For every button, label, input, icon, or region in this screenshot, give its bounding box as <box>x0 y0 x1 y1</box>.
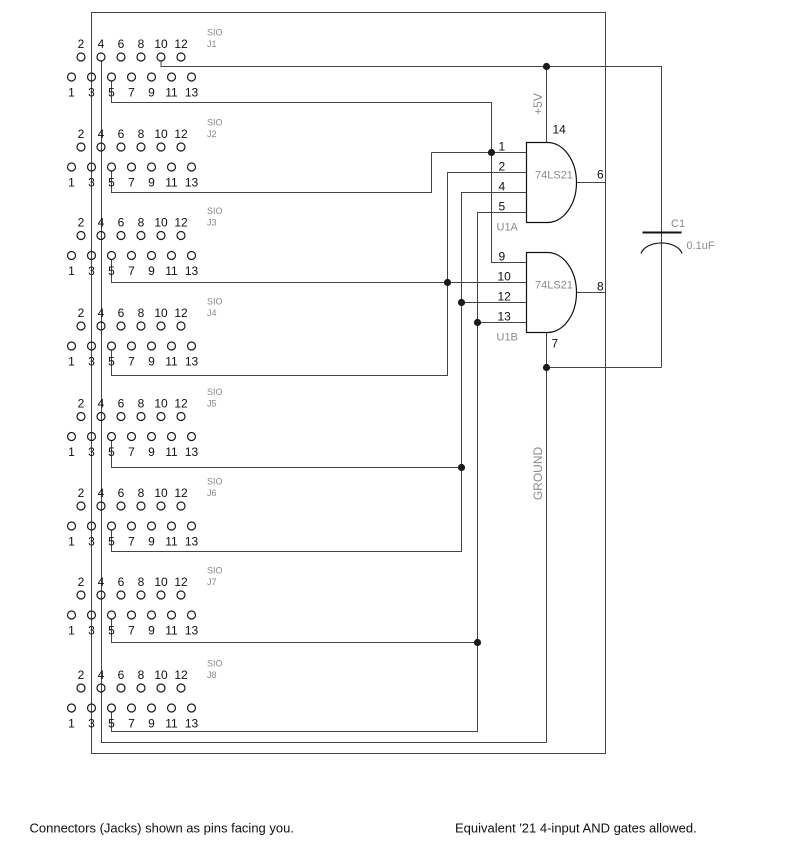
svg-text:74LS21: 74LS21 <box>535 170 573 182</box>
svg-text:12: 12 <box>498 290 512 304</box>
svg-text:10: 10 <box>154 216 168 230</box>
svg-text:J8: J8 <box>207 670 217 680</box>
wire +5V to U1A pin 14 <box>546 67 548 143</box>
svg-text:9: 9 <box>148 355 155 369</box>
wire ground junction to C1 bottom <box>547 367 662 369</box>
svg-text:U1B: U1B <box>497 332 518 344</box>
svg-text:9: 9 <box>148 624 155 638</box>
svg-text:9: 9 <box>148 445 155 459</box>
svg-text:13: 13 <box>185 264 199 278</box>
svg-text:1: 1 <box>68 535 75 549</box>
svg-text:7: 7 <box>128 86 135 100</box>
svg-text:6: 6 <box>597 168 604 182</box>
svg-text:13: 13 <box>185 535 199 549</box>
junction net D junction J7 branch <box>474 639 481 646</box>
svg-text:9: 9 <box>148 264 155 278</box>
connector J5 (SIO jack, pins facing you) <box>68 387 223 459</box>
svg-text:5: 5 <box>108 624 115 638</box>
junction net A junction at U1A pin1 <box>488 149 495 156</box>
connector J6 (SIO jack, pins facing you) <box>68 477 223 549</box>
svg-text:3: 3 <box>88 86 95 100</box>
svg-text:11: 11 <box>165 535 178 549</box>
connector J7 (SIO jack, pins facing you) <box>68 566 223 638</box>
svg-text:6: 6 <box>118 668 125 682</box>
wire ground bus vertical (U1B pin7 to bottom rail) <box>546 368 548 743</box>
svg-text:4: 4 <box>98 127 105 141</box>
svg-text:11: 11 <box>165 86 178 100</box>
svg-text:13: 13 <box>185 355 199 369</box>
AND gate U1B (74LS21 4-input) <box>497 250 605 344</box>
svg-text:3: 3 <box>88 624 95 638</box>
svg-text:4: 4 <box>98 397 105 411</box>
wire U1B output pin 8 <box>577 292 606 294</box>
connector J4 (SIO jack, pins facing you) <box>68 297 223 369</box>
junction net C junction J5 branch <box>458 464 465 471</box>
svg-text:6: 6 <box>118 575 125 589</box>
svg-text:11: 11 <box>165 717 178 731</box>
junction +5V junction <box>543 63 550 70</box>
svg-text:3: 3 <box>88 535 95 549</box>
svg-text:11: 11 <box>165 355 178 369</box>
svg-text:C1: C1 <box>671 218 685 230</box>
svg-text:9: 9 <box>148 86 155 100</box>
svg-text:3: 3 <box>88 355 95 369</box>
svg-text:10: 10 <box>154 575 168 589</box>
svg-text:12: 12 <box>174 127 188 141</box>
svg-text:1: 1 <box>68 717 75 731</box>
svg-text:10: 10 <box>498 270 512 284</box>
svg-text:3: 3 <box>88 176 95 190</box>
svg-text:12: 12 <box>174 397 188 411</box>
svg-text:10: 10 <box>154 127 168 141</box>
wire net C: J5 pin5 branch <box>112 440 462 467</box>
connector J3 (SIO jack, pins facing you) <box>68 206 223 278</box>
svg-text:5: 5 <box>108 264 115 278</box>
wire U1A pin 1 row <box>432 152 527 154</box>
wire net C: J6 pin5 to U1A pin4 <box>112 193 527 552</box>
svg-text:J5: J5 <box>207 399 217 409</box>
svg-text:J3: J3 <box>207 218 217 228</box>
svg-text:10: 10 <box>154 37 168 51</box>
junction net D junction at U1B pin13 <box>474 319 481 326</box>
svg-text:2: 2 <box>78 127 85 141</box>
svg-text:J6: J6 <box>207 488 217 498</box>
svg-text:7: 7 <box>552 337 559 351</box>
svg-text:13: 13 <box>185 176 199 190</box>
svg-text:4: 4 <box>98 37 105 51</box>
junction net C junction at U1B pin12 <box>458 299 465 306</box>
wire U1B pin 13 row <box>478 322 527 324</box>
svg-text:9: 9 <box>148 176 155 190</box>
svg-text:6: 6 <box>118 37 125 51</box>
svg-text:1: 1 <box>68 86 75 100</box>
svg-text:5: 5 <box>108 176 115 190</box>
wire U1A output pin 6 <box>577 182 606 184</box>
svg-text:SIO: SIO <box>207 118 223 128</box>
junction net B junction at U1B pin10 <box>444 279 451 286</box>
svg-text:9: 9 <box>148 717 155 731</box>
svg-text:2: 2 <box>78 575 85 589</box>
svg-text:14: 14 <box>553 123 567 137</box>
svg-text:1: 1 <box>68 264 75 278</box>
svg-text:2: 2 <box>499 160 506 174</box>
svg-text:2: 2 <box>78 37 85 51</box>
svg-text:2: 2 <box>78 486 85 500</box>
svg-text:5: 5 <box>108 445 115 459</box>
svg-text:1: 1 <box>68 445 75 459</box>
svg-text:1: 1 <box>68 624 75 638</box>
svg-text:8: 8 <box>138 486 145 500</box>
svg-text:4: 4 <box>98 216 105 230</box>
svg-text:1: 1 <box>499 140 506 154</box>
svg-text:SIO: SIO <box>207 28 223 38</box>
svg-text:Connectors (Jacks) shown as pi: Connectors (Jacks) shown as pins facing … <box>30 821 294 836</box>
svg-text:4: 4 <box>98 306 105 320</box>
svg-text:12: 12 <box>174 216 188 230</box>
svg-text:8: 8 <box>138 668 145 682</box>
svg-text:7: 7 <box>128 535 135 549</box>
svg-text:J4: J4 <box>207 308 217 318</box>
connector J2 (SIO jack, pins facing you) <box>68 118 223 190</box>
wire U1B pin 7 to ground junction <box>546 333 548 368</box>
wire net B: J3 pin5 to U1B pin10 <box>112 259 527 282</box>
svg-text:SIO: SIO <box>207 477 223 487</box>
svg-text:10: 10 <box>154 668 168 682</box>
svg-text:6: 6 <box>118 397 125 411</box>
svg-text:11: 11 <box>165 176 178 190</box>
svg-text:6: 6 <box>118 306 125 320</box>
svg-text:7: 7 <box>128 264 135 278</box>
svg-text:8: 8 <box>138 127 145 141</box>
svg-text:7: 7 <box>128 445 135 459</box>
svg-text:5: 5 <box>108 717 115 731</box>
svg-text:2: 2 <box>78 306 85 320</box>
wire U1B pin 12 row <box>462 302 527 304</box>
svg-text:5: 5 <box>499 200 506 214</box>
svg-text:11: 11 <box>165 624 178 638</box>
svg-text:SIO: SIO <box>207 387 223 397</box>
connector J8 (SIO jack, pins facing you) <box>68 659 223 731</box>
svg-text:1: 1 <box>68 355 75 369</box>
wire ground bus (pin-4 column to bottom rail) <box>102 61 547 743</box>
connector J1 (SIO jack, pins facing you) <box>68 28 223 100</box>
svg-text:2: 2 <box>78 216 85 230</box>
svg-text:1: 1 <box>68 176 75 190</box>
svg-text:10: 10 <box>154 486 168 500</box>
svg-text:12: 12 <box>174 37 188 51</box>
svg-text:SIO: SIO <box>207 297 223 307</box>
svg-text:4: 4 <box>98 486 105 500</box>
svg-text:3: 3 <box>88 445 95 459</box>
svg-text:GROUND: GROUND <box>531 447 545 501</box>
wire net B: J4 pin5 branch to U1A pin2 <box>112 173 527 376</box>
svg-text:8: 8 <box>138 216 145 230</box>
svg-text:3: 3 <box>88 264 95 278</box>
svg-text:+5V: +5V <box>531 93 545 115</box>
svg-text:9: 9 <box>148 535 155 549</box>
junction ground junction <box>543 364 550 371</box>
svg-text:7: 7 <box>128 717 135 731</box>
wire +5V net: J1 pin10 to C1 top <box>161 61 662 232</box>
svg-text:8: 8 <box>138 575 145 589</box>
svg-text:5: 5 <box>108 355 115 369</box>
svg-text:11: 11 <box>165 264 178 278</box>
svg-text:11: 11 <box>165 445 178 459</box>
svg-text:12: 12 <box>174 306 188 320</box>
wire output net border loop (pin3 bus + gate outputs 6,8) <box>92 13 606 754</box>
wire net A: J2 pin5 branch <box>112 153 432 193</box>
svg-text:6: 6 <box>118 216 125 230</box>
svg-text:13: 13 <box>185 717 199 731</box>
svg-text:7: 7 <box>128 624 135 638</box>
wire net D: J7 pin5 branch <box>112 619 478 643</box>
svg-text:12: 12 <box>174 575 188 589</box>
svg-text:SIO: SIO <box>207 206 223 216</box>
svg-text:J2: J2 <box>207 129 217 139</box>
svg-text:13: 13 <box>185 624 199 638</box>
wire C1 through-lead <box>661 234 663 368</box>
svg-text:3: 3 <box>88 717 95 731</box>
svg-text:4: 4 <box>98 575 105 589</box>
svg-text:0.1uF: 0.1uF <box>687 240 715 252</box>
svg-text:8: 8 <box>138 306 145 320</box>
svg-text:6: 6 <box>118 486 125 500</box>
svg-text:10: 10 <box>154 306 168 320</box>
svg-text:12: 12 <box>174 668 188 682</box>
svg-text:8: 8 <box>138 397 145 411</box>
svg-text:10: 10 <box>154 397 168 411</box>
svg-text:4: 4 <box>499 180 506 194</box>
svg-text:74LS21: 74LS21 <box>535 280 573 292</box>
svg-text:2: 2 <box>78 668 85 682</box>
wire net D: J8 pin5 to U1A pin5 <box>112 213 527 732</box>
svg-text:SIO: SIO <box>207 659 223 669</box>
svg-text:Equivalent '21 4-input AND gat: Equivalent '21 4-input AND gates allowed… <box>455 821 697 836</box>
svg-text:5: 5 <box>108 535 115 549</box>
svg-text:6: 6 <box>118 127 125 141</box>
svg-text:13: 13 <box>185 86 199 100</box>
wire net A: J1 pin5 to U1A pin1 / U1B pin9 <box>112 81 527 263</box>
svg-text:12: 12 <box>174 486 188 500</box>
svg-text:2: 2 <box>78 397 85 411</box>
svg-text:J1: J1 <box>207 39 217 49</box>
AND gate U1A (74LS21 4-input) <box>497 140 605 234</box>
svg-text:U1A: U1A <box>497 222 519 234</box>
svg-text:SIO: SIO <box>207 566 223 576</box>
svg-text:4: 4 <box>98 668 105 682</box>
svg-text:13: 13 <box>498 310 512 324</box>
svg-text:8: 8 <box>597 280 604 294</box>
svg-text:13: 13 <box>185 445 199 459</box>
svg-text:5: 5 <box>108 86 115 100</box>
svg-text:9: 9 <box>499 250 506 264</box>
svg-text:7: 7 <box>128 176 135 190</box>
capacitor C1 plates <box>641 233 682 254</box>
svg-text:7: 7 <box>128 355 135 369</box>
svg-text:J7: J7 <box>207 577 217 587</box>
svg-text:8: 8 <box>138 37 145 51</box>
